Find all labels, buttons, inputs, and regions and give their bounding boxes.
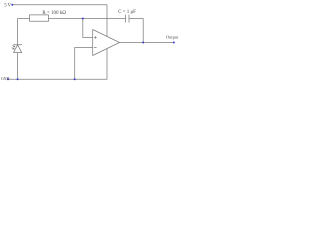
svg-text:R = 100 kΩ: R = 100 kΩ (42, 11, 66, 16)
svg-text:GND: GND (1, 76, 10, 81)
wire resistor to capacitor (49, 18, 126, 20)
node junction R C input (82, 18, 84, 20)
op-amp minus mark (94, 47, 96, 49)
svg-text:5 V: 5 V (4, 3, 11, 8)
photodiode light arrow 2 (12, 48, 14, 49)
node 5V terminal (11, 4, 13, 6)
capacitor C plates (125, 15, 127, 22)
svg-text:Output: Output (166, 34, 179, 39)
photodiode light arrow 1 (13, 46, 15, 47)
node GND terminal (7, 78, 9, 80)
op-amp plus mark (94, 37, 96, 39)
node output terminal (173, 42, 175, 44)
circuit schematic: photodiode light sensor with op-amp (0, 0, 180, 86)
wire output (120, 42, 174, 44)
photodiode D1 cathode bar (14, 44, 22, 46)
node junction inverting ground (74, 78, 76, 80)
node junction diode ground (17, 78, 19, 80)
op-amp U1 triangle (93, 30, 120, 56)
wire 5V rail (13, 5, 107, 36)
photodiode D1 triangle (14, 45, 22, 53)
wire inverting input to ground (75, 48, 93, 80)
wire photodiode top lead (18, 19, 30, 45)
svg-text:C = 1 μF: C = 1 μF (118, 10, 136, 15)
node junction feedback output (142, 42, 144, 44)
wire photodiode bottom lead (17, 53, 19, 80)
wire junction to noninverting input (83, 19, 93, 38)
wire capacitor to output node (129, 19, 143, 43)
resistor R body (30, 15, 49, 21)
wire ground rail (9, 49, 107, 79)
